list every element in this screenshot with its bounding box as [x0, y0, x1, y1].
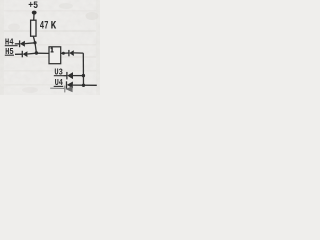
wire node B to U1 pin 1 — [36, 52, 49, 54]
underline U3 / wire — [54, 75, 64, 77]
net label H5 — [5, 47, 14, 57]
power label +5 — [28, 0, 38, 11]
wire H4 stub — [15, 43, 20, 45]
value label 47 K — [40, 20, 57, 32]
power terminal dot — [32, 11, 37, 15]
wire D3 to corner — [74, 52, 84, 54]
node E junction dot — [82, 84, 85, 87]
wire terminal to resistor — [33, 15, 35, 21]
wire U3 stub — [64, 75, 67, 77]
node A junction dot — [33, 41, 36, 44]
resistor R (47K) — [31, 20, 36, 36]
wire U1 output — [61, 52, 69, 54]
wire D4 to node D — [73, 75, 83, 77]
wire D2 to node B — [27, 52, 36, 55]
wire H5 stub — [15, 53, 22, 55]
net label U3 — [54, 67, 62, 77]
svg-text:47: 47 — [40, 20, 49, 32]
net label H4 — [5, 37, 14, 47]
underline H4 — [5, 45, 18, 47]
wire vertical bus — [82, 53, 84, 85]
scan background — [0, 0, 100, 95]
svg-text:+5: +5 — [28, 0, 38, 11]
node B junction dot — [35, 51, 38, 54]
node D junction dot — [82, 74, 85, 77]
diode D2 cathode bar — [21, 51, 23, 58]
wire D5 to edge — [73, 84, 97, 86]
net label U4 — [55, 78, 64, 88]
diode D3 arrow — [69, 50, 74, 56]
diode D2 arrow — [23, 51, 28, 57]
diode D4 cathode bar — [66, 72, 68, 80]
diode D3 cathode bar — [68, 50, 70, 56]
diode D6 cathode bar (faint) — [64, 86, 66, 93]
node C junction dot — [62, 52, 65, 55]
diode D5 arrow — [67, 82, 73, 89]
pin number 1 — [51, 47, 54, 52]
wire node A to node B — [35, 43, 36, 53]
underline U4 — [54, 85, 64, 87]
diode D5 cathode bar — [66, 81, 68, 88]
wire D1 to node A — [25, 42, 35, 45]
wire resistor to node A — [33, 36, 35, 43]
IC U1 box — [49, 47, 61, 64]
diode D1 cathode bar — [19, 40, 21, 47]
svg-text:K: K — [51, 20, 57, 32]
diode D1 arrow — [20, 41, 25, 47]
diode D6 arrow (faint) — [65, 86, 72, 92]
diode D4 arrow — [67, 72, 73, 79]
underline H5 — [5, 54, 14, 56]
wire ghost row — [50, 87, 64, 89]
